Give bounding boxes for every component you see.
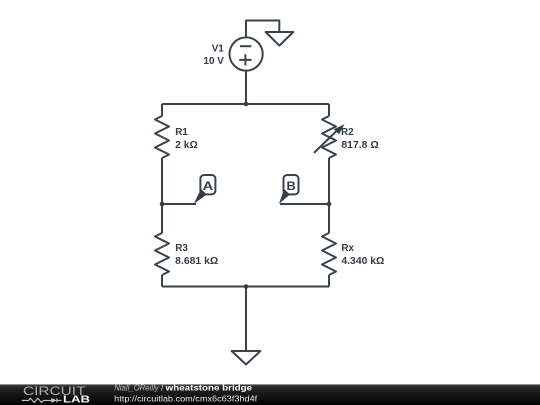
svg-text:R3: R3 <box>175 243 188 254</box>
svg-text:4.340 kΩ: 4.340 kΩ <box>341 256 384 267</box>
svg-text:wheatstone bridge: wheatstone bridge <box>164 382 252 392</box>
svg-text:B: B <box>287 179 297 193</box>
svg-text:Rx: Rx <box>341 243 354 254</box>
svg-text:R2: R2 <box>341 127 354 138</box>
svg-text:A: A <box>203 179 214 193</box>
svg-text:Niall_OReilly: Niall_OReilly <box>114 382 159 392</box>
svg-text:V1: V1 <box>212 43 225 54</box>
svg-text:R1: R1 <box>175 127 188 138</box>
svg-text:LAB: LAB <box>63 395 90 405</box>
svg-text:8.681 kΩ: 8.681 kΩ <box>175 256 218 267</box>
svg-text:10 V: 10 V <box>203 56 224 67</box>
svg-text:2 kΩ: 2 kΩ <box>175 140 198 151</box>
svg-text:817.8 Ω: 817.8 Ω <box>341 140 378 151</box>
svg-text:http://circuitlab.com/cmx6c63f: http://circuitlab.com/cmx6c63f3hd4f <box>114 393 258 403</box>
